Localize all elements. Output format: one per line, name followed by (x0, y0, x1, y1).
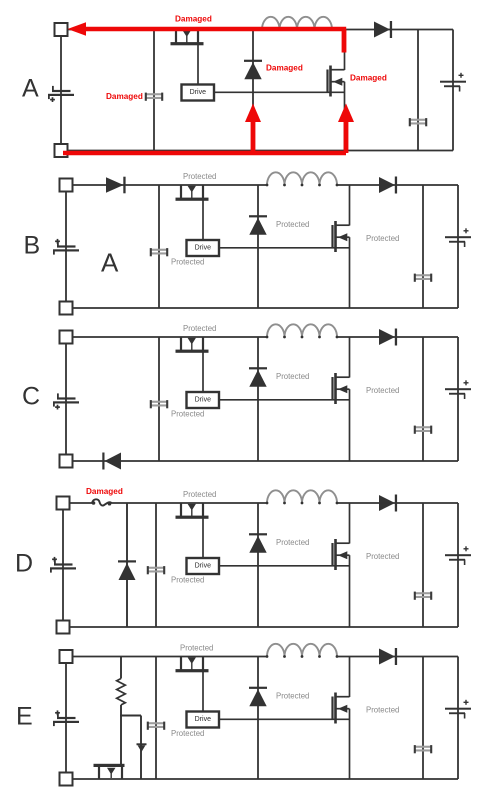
svg-text:Protected: Protected (276, 220, 309, 229)
svg-text:Protected: Protected (366, 234, 399, 243)
svg-text:Protected: Protected (183, 324, 216, 333)
svg-text:Protected: Protected (183, 490, 216, 499)
svg-text:Damaged: Damaged (86, 487, 123, 496)
svg-text:Drive: Drive (195, 716, 211, 723)
svg-text:Protected: Protected (276, 538, 309, 547)
svg-text:C: C (22, 383, 40, 411)
svg-text:Protected: Protected (171, 258, 204, 267)
svg-text:Protected: Protected (366, 386, 399, 395)
svg-text:B: B (24, 232, 41, 260)
svg-text:Protected: Protected (171, 410, 204, 419)
svg-text:A: A (22, 75, 39, 103)
svg-text:E: E (16, 703, 33, 731)
svg-text:A: A (101, 248, 119, 278)
svg-text:Protected: Protected (276, 692, 309, 701)
svg-text:D: D (15, 550, 33, 578)
svg-text:Damaged: Damaged (106, 92, 143, 101)
svg-text:Protected: Protected (366, 706, 399, 715)
svg-text:Protected: Protected (183, 172, 216, 181)
svg-text:Drive: Drive (195, 562, 211, 569)
svg-text:Damaged: Damaged (350, 74, 387, 83)
svg-text:Protected: Protected (171, 576, 204, 585)
svg-text:Drive: Drive (195, 396, 211, 403)
svg-text:Damaged: Damaged (175, 15, 212, 24)
svg-text:Drive: Drive (190, 89, 206, 96)
svg-text:Protected: Protected (366, 552, 399, 561)
svg-text:Drive: Drive (195, 244, 211, 251)
svg-text:Protected: Protected (171, 729, 204, 738)
svg-text:Damaged: Damaged (266, 64, 303, 73)
svg-text:Protected: Protected (180, 643, 213, 652)
svg-text:Protected: Protected (276, 372, 309, 381)
